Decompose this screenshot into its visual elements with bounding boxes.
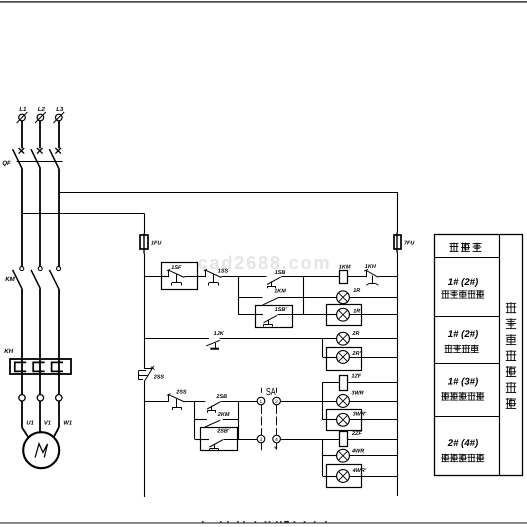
wire row1 to coil 1KM — [281, 276, 340, 278]
box around button 1SB2 — [256, 306, 293, 328]
svg-text:1# (2#): 1# (2#) — [448, 277, 478, 288]
indicator lamp 1R' — [337, 308, 363, 321]
svg-text:3: 3 — [260, 437, 263, 443]
wire row3 to boxed lamp — [278, 314, 327, 316]
svg-text:1SF: 1SF — [171, 265, 182, 271]
wire row3 from X1 — [238, 314, 255, 316]
box around lamp 3WR2 — [327, 410, 362, 431]
indicator lamp 2R' — [337, 351, 362, 364]
selector SA contact 2 — [273, 397, 281, 405]
wire lamp 2R2 to right bus — [349, 357, 397, 359]
terminal L1 — [17, 112, 28, 123]
svg-text:1KM: 1KM — [274, 289, 286, 295]
table right column vertical text — [506, 302, 516, 408]
pushbutton 2SB' — [210, 429, 230, 451]
aux contact 2KM (seal) — [205, 412, 230, 427]
table cell 2 row 2 text vacuum signal — [445, 345, 479, 353]
svg-text:1: 1 — [260, 399, 263, 405]
junction column X1 — [238, 277, 240, 315]
svg-text:2R': 2R' — [351, 351, 361, 357]
svg-text:2: 2 — [275, 399, 278, 405]
svg-text:SA: SA — [266, 387, 276, 398]
wire row1 1SS to contact 1SB — [221, 276, 266, 278]
pushbutton 1SS — [204, 269, 229, 286]
svg-text:2KM: 2KM — [217, 412, 230, 418]
wire pole 1 to thermal relay — [21, 289, 23, 359]
wire pole 3 to thermal relay — [58, 289, 60, 359]
selector SA contact 4 — [273, 435, 281, 443]
selector SA contact 1 — [257, 397, 265, 405]
svg-text:4: 4 — [275, 437, 278, 443]
table cell 1 row 2 text pump control — [441, 290, 484, 298]
svg-text:1KH: 1KH — [365, 264, 377, 270]
wire 2SB to SA — [221, 401, 257, 403]
wire 2SS to 2SB — [185, 401, 206, 403]
wire coil 2ZF to right bus — [347, 439, 398, 441]
terminal L3 — [53, 112, 64, 123]
wire pole 2 to contactor — [39, 169, 41, 268]
right control bus — [397, 253, 399, 497]
wire lead U1 — [22, 401, 29, 438]
aux contact 1KM (seal) — [263, 289, 287, 305]
terminal L2 — [35, 112, 46, 123]
contactor KM pole 2 — [31, 267, 42, 289]
wire row11 to boxed lamp — [323, 476, 327, 478]
svg-text:1JK: 1JK — [214, 331, 225, 337]
wire row4 from left bus — [144, 338, 209, 340]
wire lamp 1R to right bus — [349, 297, 397, 299]
selector SA contact 3 — [257, 435, 265, 443]
svg-text:1KM: 1KM — [339, 265, 351, 271]
indicator lamp 3WR' — [337, 411, 367, 426]
wire SA4 to coil 2ZF — [280, 439, 339, 441]
wire row10 to lamp 4WR — [323, 455, 337, 457]
thermal relay KH element 2 — [33, 362, 44, 371]
wire pole 2 to thermal relay — [39, 289, 41, 359]
wire L1 drop — [21, 121, 23, 149]
breaker QF pole 2 contact cross — [37, 148, 43, 154]
svg-text:1R: 1R — [353, 288, 360, 294]
fuse 7FU — [394, 233, 415, 253]
svg-text:3WR: 3WR — [351, 391, 363, 397]
wire L1 branch to 1FU — [22, 214, 145, 234]
wire row6 to coil 1ZF — [323, 382, 340, 384]
breaker QF linkage bar — [17, 161, 63, 163]
breaker QF pole 2 blade — [31, 149, 40, 168]
svg-text:1FU: 1FU — [151, 241, 162, 247]
wire row2 X2 to lamp 1R — [304, 297, 337, 299]
svg-text:2# (4#): 2# (4#) — [447, 438, 478, 449]
table cell 3 row 2 text valve control — [441, 392, 484, 400]
wire row8 from X5 — [195, 419, 207, 421]
selector SA linkage left — [261, 388, 263, 450]
motor M — [23, 432, 59, 468]
wire lamp 3WR to right bus — [349, 401, 397, 403]
svg-text:1SB': 1SB' — [275, 307, 288, 313]
table cell 4 row 2 text valve control 2 — [441, 454, 484, 462]
wire row8 right to boxed lamp — [323, 419, 327, 421]
wire L2 drop — [39, 121, 41, 149]
svg-text:3WR': 3WR' — [353, 411, 367, 417]
thermal contact 1KH — [364, 264, 378, 285]
wire 1JK to lamp 2R — [220, 338, 337, 340]
wire coil 1KM to 1KH contact — [347, 276, 366, 278]
wire row5 box to lamp — [327, 357, 337, 359]
svg-text:L2: L2 — [38, 106, 46, 113]
wire L3 drop — [58, 121, 60, 149]
wire lamp 4WR to right bus — [349, 455, 397, 457]
indicator lamp 3WR — [337, 391, 364, 408]
junction column X5 — [194, 401, 196, 439]
breaker QF pole 1 blade — [13, 149, 22, 168]
svg-text:KM: KM — [5, 276, 15, 283]
box around button 2SB2 — [201, 428, 238, 451]
wire row3 in left box — [255, 314, 263, 316]
wire 1KH to right bus — [378, 276, 397, 278]
page bottom border — [0, 522, 527, 523]
wire row7 from left bus — [144, 401, 169, 403]
wire lamp 3WR2 to right bus — [349, 419, 397, 421]
pushbutton 1SB — [267, 270, 285, 288]
wire coil 1ZF to right bus — [347, 382, 397, 384]
junction column X3 — [322, 339, 324, 357]
svg-text:V1: V1 — [44, 421, 51, 427]
contactor KM pole 3 — [49, 267, 60, 289]
wire row8 to X6 — [223, 419, 239, 421]
breaker QF pole 3 blade — [49, 149, 58, 168]
contactor KM pole 1 — [13, 267, 24, 289]
coil contactor coil 1KM — [339, 265, 351, 284]
wire KH pole 2 through and to terminal — [39, 359, 41, 395]
svg-text:QF: QF — [2, 160, 11, 167]
svg-text:U1: U1 — [26, 421, 33, 427]
svg-text:L1: L1 — [19, 106, 27, 113]
thermal relay KH box — [10, 359, 71, 374]
svg-text:W1: W1 — [63, 421, 72, 427]
box around lamp 2R2 — [327, 348, 362, 371]
indicator lamp 1R — [337, 288, 361, 303]
wire KH pole 3 through and to terminal — [58, 359, 60, 395]
wire row1 1SF to 1SS — [184, 276, 205, 278]
svg-text:KH: KH — [4, 348, 13, 355]
breaker QF pole 3 contact cross — [55, 148, 61, 154]
wire lamp 2R to right bus — [349, 338, 397, 340]
wire lamp 1R2 to right bus — [349, 314, 397, 316]
selector SA linkage right — [275, 388, 277, 450]
junction column X2 — [303, 277, 305, 315]
indicator lamp 2R — [337, 331, 360, 345]
motor terminal 3 — [56, 395, 62, 401]
svg-text:7FU: 7FU — [404, 241, 415, 247]
svg-text:1R': 1R' — [353, 308, 362, 314]
svg-text:2SS: 2SS — [153, 374, 165, 380]
svg-text:L3: L3 — [56, 106, 64, 113]
pushbutton 2SS — [167, 390, 187, 410]
bottom edge clipped text marks — [202, 521, 327, 523]
svg-text:4WR': 4WR' — [352, 468, 367, 474]
svg-text:2ZF: 2ZF — [351, 431, 362, 437]
wire row3 box to lamp — [327, 314, 337, 316]
svg-text:2SB': 2SB' — [216, 429, 230, 435]
pushbutton 2SB — [207, 394, 227, 413]
svg-text:4WR: 4WR — [351, 449, 364, 455]
pushbutton 1SB' — [264, 307, 288, 327]
wire row9 to SA3 — [224, 439, 258, 441]
wire SA2 to lamp 3WR — [280, 401, 336, 403]
svg-text:2SS: 2SS — [175, 390, 187, 396]
motor terminal 1 — [19, 395, 25, 401]
svg-text:1SS: 1SS — [218, 269, 229, 275]
junction column X7 — [322, 439, 324, 476]
coil valve coil 1ZF — [340, 373, 362, 390]
vacuum relay contact 1JK — [206, 331, 225, 350]
left control bus — [144, 254, 146, 498]
wire row8 box to lamp — [327, 419, 337, 421]
svg-text:2R: 2R — [351, 331, 359, 337]
page top border — [0, 1, 527, 3]
wire row1 in box — [161, 276, 169, 278]
svg-text:1# (2#): 1# (2#) — [448, 329, 478, 340]
wire row11 box to lamp — [327, 476, 337, 478]
motor terminal 2 — [37, 395, 43, 401]
legend table frame — [434, 235, 522, 476]
thermal relay KH element 1 — [15, 362, 26, 371]
fuse 1FU — [140, 234, 162, 254]
box around button 1SF — [162, 263, 198, 290]
junction column X6 — [238, 401, 240, 439]
box around lamp 1R2 — [327, 305, 362, 326]
table cell fuse text — [450, 243, 482, 252]
thermal relay KH element 3 — [52, 362, 63, 371]
indicator lamp 4WR' — [337, 468, 367, 483]
wire row1 from left bus — [144, 276, 161, 278]
wire pole 1 to contactor — [21, 169, 23, 268]
box around lamp 4WR2 — [327, 465, 362, 488]
indicator lamp 4WR — [337, 449, 365, 463]
coil valve coil 2ZF — [340, 431, 363, 447]
svg-text:1SB: 1SB — [275, 270, 286, 276]
pressure switch 2SS in left bus — [139, 366, 165, 381]
wire lead V1 — [39, 401, 41, 432]
wire pole 3 to contactor — [58, 169, 60, 268]
wire L3 branch to 7FU — [59, 192, 398, 233]
wire row2 to X2 — [278, 297, 303, 299]
wire lead W1 — [54, 401, 59, 437]
wire row2 from X1 — [238, 297, 262, 299]
svg-text:1# (3#): 1# (3#) — [448, 377, 478, 388]
breaker QF pole 1 contact cross — [19, 148, 25, 154]
svg-text:2SB: 2SB — [215, 394, 227, 400]
wire row5 to boxed lamp — [323, 357, 327, 359]
wire KH pole 1 through and to terminal — [21, 359, 23, 395]
junction column X4 — [322, 382, 324, 420]
pushbutton 1SF — [167, 265, 185, 286]
wire row9 from X5 — [195, 439, 209, 441]
wire lamp 4WR2 to right bus — [349, 476, 397, 478]
svg-text:1ZF: 1ZF — [351, 373, 361, 379]
